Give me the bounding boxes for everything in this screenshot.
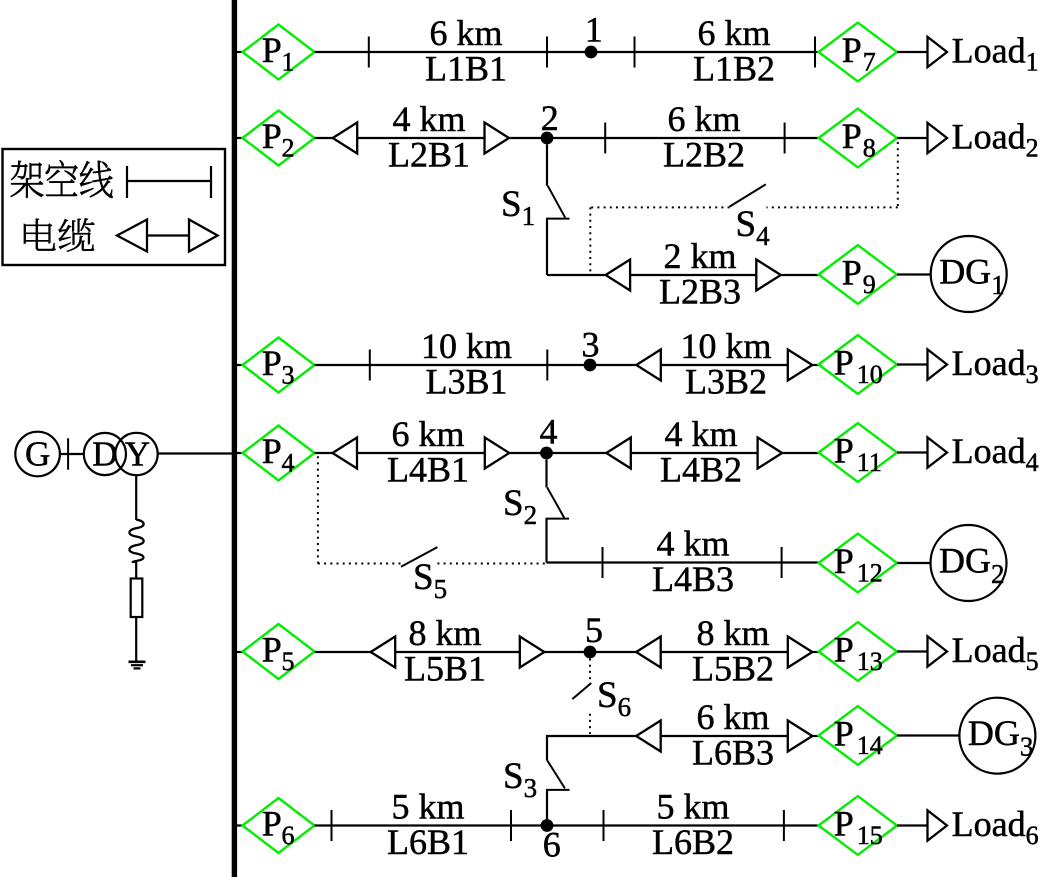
wire P10 to Load3	[897, 363, 928, 365]
grounding inductor coil	[129, 520, 143, 563]
svg-text:G: G	[25, 435, 50, 474]
svg-text:L2B2: L2B2	[663, 135, 745, 175]
wire to P9	[781, 274, 819, 276]
cable L2B3 right arrow	[756, 260, 781, 291]
wire P8 to Load2	[897, 137, 928, 139]
wire Y to grounding inductor	[135, 475, 137, 520]
svg-text:9: 9	[863, 270, 876, 299]
protection device P13	[819, 622, 897, 681]
generator terminal tick	[67, 438, 69, 469]
wire P7 to Load1	[897, 51, 928, 53]
svg-text:6 km: 6 km	[697, 13, 770, 53]
svg-text:10: 10	[857, 360, 883, 389]
svg-text:Load1: Load1	[952, 31, 1039, 77]
switch S5 blade	[401, 547, 437, 567]
feeder line L1 (L1B1+L1B2)	[315, 51, 819, 53]
segment L2B1 labels	[388, 99, 470, 175]
protection device P9	[819, 245, 897, 304]
svg-text:L6B1: L6B1	[387, 822, 469, 862]
wire coil to resistor	[135, 562, 137, 579]
node 2	[541, 98, 559, 144]
svg-text:L4B2: L4B2	[660, 450, 742, 490]
line L2B2	[547, 137, 818, 139]
cable L6B3	[661, 735, 788, 737]
node 6	[541, 819, 561, 864]
svg-text:P: P	[262, 804, 282, 844]
segment L4B1 labels	[387, 414, 469, 490]
protection device P8	[819, 109, 897, 168]
protection device P15	[819, 796, 897, 855]
section tick	[368, 37, 370, 68]
segment L2B3 labels	[659, 236, 741, 312]
dotted tie to L6B3	[589, 714, 591, 734]
svg-text:13: 13	[857, 647, 883, 676]
svg-text:L2B3: L2B3	[659, 272, 741, 312]
switch S6 blade	[572, 683, 591, 699]
protection device P1	[243, 25, 315, 80]
svg-text:3: 3	[282, 361, 295, 390]
svg-text:8 km: 8 km	[408, 613, 481, 653]
section tick	[634, 37, 636, 68]
svg-text:P: P	[834, 343, 854, 383]
load arrow Load1	[928, 37, 948, 67]
wire bus to P5	[237, 651, 243, 653]
svg-text:P: P	[834, 630, 854, 670]
legend box	[3, 149, 226, 265]
wire bus to P2	[237, 137, 243, 139]
cable L4B1 right arrow	[485, 438, 510, 469]
segment L1B1 labels	[425, 13, 507, 89]
svg-text:P: P	[842, 253, 862, 293]
wire transformer to bus	[158, 452, 232, 454]
svg-text:5 km: 5 km	[391, 787, 464, 827]
svg-text:4 km: 4 km	[392, 99, 465, 139]
segment L6B3 labels	[692, 697, 774, 773]
cable L2B1 right arrow	[485, 123, 510, 154]
wire bus to P6	[237, 824, 243, 826]
cable L4B1	[357, 452, 485, 454]
wire node4 to cable L4B2	[547, 452, 607, 454]
section tick	[814, 37, 816, 68]
protection device P12	[819, 534, 897, 593]
svg-text:4: 4	[282, 449, 295, 478]
segment L4B3 labels	[652, 524, 734, 600]
wire node5 to cable L5B2	[590, 651, 636, 653]
protection device P7	[819, 23, 897, 82]
wire to node 5	[544, 651, 590, 653]
segment L2B2 labels	[663, 99, 745, 175]
svg-text:Load5: Load5	[952, 630, 1039, 676]
cable L3B2 left arrow	[636, 350, 661, 381]
dotted tie S4 to vertical	[590, 206, 729, 208]
load arrow Load4	[928, 437, 948, 467]
svg-text:6: 6	[543, 825, 561, 865]
switch S2	[546, 460, 570, 563]
wire G to transformer	[60, 453, 84, 455]
svg-text:P: P	[842, 30, 862, 70]
legend cable symbol	[117, 220, 218, 252]
section tick	[781, 547, 783, 578]
wire bus to P1	[237, 51, 243, 53]
wire P2 to cable L2B1	[315, 137, 333, 139]
switch S1	[546, 145, 570, 276]
svg-text:Load6: Load6	[952, 804, 1039, 850]
svg-text:5: 5	[585, 610, 603, 650]
svg-text:L6B2: L6B2	[652, 822, 734, 862]
section tick	[602, 547, 604, 578]
dotted tie node5 down	[589, 659, 591, 682]
svg-text:6 km: 6 km	[667, 99, 740, 139]
cable L4B2 left arrow	[606, 438, 631, 469]
cable L6B3 left arrow	[636, 721, 661, 752]
svg-text:6: 6	[282, 821, 295, 850]
load arrow Load6	[928, 810, 948, 840]
segment L5B1 labels	[404, 613, 486, 689]
section tick	[331, 810, 333, 841]
load arrow Load2	[928, 123, 948, 153]
wire node2 branch to cable L2B3	[547, 274, 606, 276]
section tick	[546, 350, 548, 381]
protection device P14	[819, 706, 897, 765]
wire resistor to ground	[135, 617, 137, 661]
svg-text:8: 8	[863, 134, 876, 163]
wire P13 to Load5	[897, 650, 928, 652]
svg-text:P: P	[834, 714, 854, 754]
svg-text:4 km: 4 km	[664, 414, 737, 454]
wire to P11	[782, 452, 818, 454]
svg-text:7: 7	[863, 48, 876, 77]
svg-text:L3B1: L3B1	[425, 362, 507, 402]
segment L3B1 labels	[421, 326, 512, 402]
wire bus to P3	[237, 364, 243, 366]
svg-text:15: 15	[857, 821, 883, 850]
wire P11 to Load4	[897, 451, 928, 453]
svg-text:L5B1: L5B1	[404, 649, 486, 689]
svg-text:12: 12	[857, 559, 883, 588]
svg-text:D: D	[92, 435, 117, 474]
cable L2B1	[357, 137, 484, 139]
transformer primary D	[84, 433, 126, 475]
svg-text:1: 1	[585, 10, 603, 50]
section tick	[784, 123, 786, 154]
wire P12 to DG2	[897, 562, 931, 564]
cable L5B2 left arrow	[636, 637, 661, 668]
svg-text:P: P	[262, 116, 282, 156]
cable L5B1	[395, 651, 520, 653]
cable L3B2 right arrow	[788, 350, 813, 381]
node 4	[540, 412, 558, 460]
svg-text:P: P	[842, 116, 862, 156]
node 1	[585, 10, 603, 59]
svg-text:L4B3: L4B3	[652, 559, 734, 599]
svg-text:4 km: 4 km	[656, 524, 729, 564]
svg-text:L5B2: L5B2	[692, 649, 774, 689]
svg-text:P: P	[262, 630, 282, 670]
wire to node 2	[509, 137, 547, 139]
segment L6B1 labels	[387, 787, 469, 863]
svg-text:L6B3: L6B3	[692, 733, 774, 773]
distributed generator DG2	[931, 525, 1007, 601]
segment L3B2 labels	[680, 326, 771, 402]
legend label: cable (dian lan)	[24, 218, 94, 251]
segment L1B2 labels	[693, 13, 775, 89]
ground symbol	[129, 662, 146, 669]
section tick	[603, 810, 605, 841]
protection device P2	[243, 111, 315, 166]
svg-text:Load4: Load4	[952, 431, 1039, 477]
protection device P11	[819, 423, 897, 482]
dotted tie down to L2B3	[589, 207, 591, 275]
section tick	[546, 37, 548, 68]
svg-text:P: P	[262, 431, 282, 471]
svg-text:Load2: Load2	[952, 117, 1039, 163]
generator G	[15, 432, 60, 477]
svg-text:11: 11	[857, 448, 882, 477]
cable L4B2 right arrow	[758, 438, 783, 469]
svg-text:Y: Y	[125, 435, 150, 474]
svg-text:5 km: 5 km	[656, 787, 729, 827]
distributed generator DG3	[959, 698, 1035, 774]
segment L5B2 labels	[692, 613, 774, 689]
dotted tie toward S5	[318, 563, 401, 565]
wire P4 to cable L4B1	[315, 452, 333, 454]
wire to P14	[812, 735, 818, 737]
load arrow Load5	[928, 636, 948, 666]
node 5	[584, 610, 603, 658]
svg-text:2: 2	[282, 134, 295, 163]
switch S4 blade	[730, 184, 766, 206]
svg-text:P: P	[262, 343, 282, 383]
legend overhead line symbol	[127, 166, 211, 198]
svg-text:L2B1: L2B1	[388, 135, 470, 175]
dotted tie toward S4	[767, 206, 898, 208]
section tick	[783, 810, 785, 841]
segment L6B2 labels	[652, 787, 734, 863]
wire corner L6B3 to S3	[547, 736, 636, 826]
protection device P4	[243, 426, 315, 481]
svg-text:10 km: 10 km	[680, 326, 771, 366]
svg-text:6 km: 6 km	[429, 13, 502, 53]
svg-text:P: P	[834, 431, 854, 471]
cable L2B3 left arrow	[606, 260, 631, 291]
svg-text:Load3: Load3	[952, 343, 1039, 389]
protection device P3	[243, 338, 315, 393]
transformer secondary Y	[115, 433, 157, 475]
svg-text:6 km: 6 km	[696, 697, 769, 737]
cable L5B1 left arrow	[371, 637, 396, 668]
wire P9 to DG1	[897, 273, 931, 275]
cable L2B1 left arrow	[333, 123, 358, 154]
svg-text:L1B2: L1B2	[693, 49, 775, 89]
feeder line L6 (L6B1+L6B2)	[315, 824, 819, 826]
cable L2B3	[630, 274, 756, 276]
grounding resistor	[131, 579, 143, 618]
svg-text:14: 14	[857, 731, 883, 760]
cable L5B2 right arrow	[788, 637, 813, 668]
wire to P10	[812, 364, 818, 366]
cable L5B2	[661, 651, 788, 653]
wire P15 to Load6	[897, 824, 928, 826]
svg-text:P: P	[834, 804, 854, 844]
svg-text:2 km: 2 km	[663, 236, 736, 276]
svg-text:10 km: 10 km	[421, 326, 512, 366]
wire P5 to cable L5B1	[315, 651, 371, 653]
legend label: overhead line (jia kong xian)	[11, 160, 113, 198]
section tick	[510, 810, 512, 841]
svg-text:1: 1	[282, 48, 295, 77]
svg-text:5: 5	[282, 647, 295, 676]
switch S3	[546, 761, 570, 790]
svg-text:L1B1: L1B1	[425, 49, 507, 89]
wire P14 to DG3	[897, 734, 960, 736]
line L3B1	[315, 364, 637, 366]
svg-text:2: 2	[541, 98, 559, 138]
segment L4B2 labels	[660, 414, 742, 490]
section tick	[604, 123, 606, 154]
svg-text:3: 3	[582, 325, 600, 365]
cable L5B1 right arrow	[520, 637, 545, 668]
wire to P13	[812, 651, 818, 653]
dotted tie S5 to S2 leg	[437, 563, 546, 565]
section tick	[369, 350, 371, 381]
cable L3B2	[661, 364, 788, 366]
svg-text:6 km: 6 km	[391, 414, 464, 454]
cable L6B3 right arrow	[788, 721, 813, 752]
cable L4B2	[631, 452, 758, 454]
svg-text:8 km: 8 km	[696, 613, 769, 653]
protection device P5	[243, 624, 315, 679]
svg-text:L3B2: L3B2	[685, 362, 767, 402]
node 3	[582, 325, 600, 372]
wire to node 4	[509, 452, 546, 454]
svg-text:L4B1: L4B1	[387, 450, 469, 490]
protection device P6	[243, 798, 315, 853]
dotted tie from P8 down	[897, 142, 899, 207]
svg-text:P: P	[262, 30, 282, 70]
cable L4B1 left arrow	[333, 438, 358, 469]
svg-text:P: P	[834, 541, 854, 581]
svg-text:4: 4	[540, 412, 558, 452]
distributed generator DG1	[931, 236, 1007, 312]
line L4B3	[547, 561, 819, 563]
main bus bar	[232, 0, 237, 877]
load arrow Load3	[928, 349, 948, 379]
dotted tie from P4 down	[317, 456, 319, 563]
wire bus to P4	[237, 452, 243, 454]
protection device P10	[819, 335, 897, 394]
